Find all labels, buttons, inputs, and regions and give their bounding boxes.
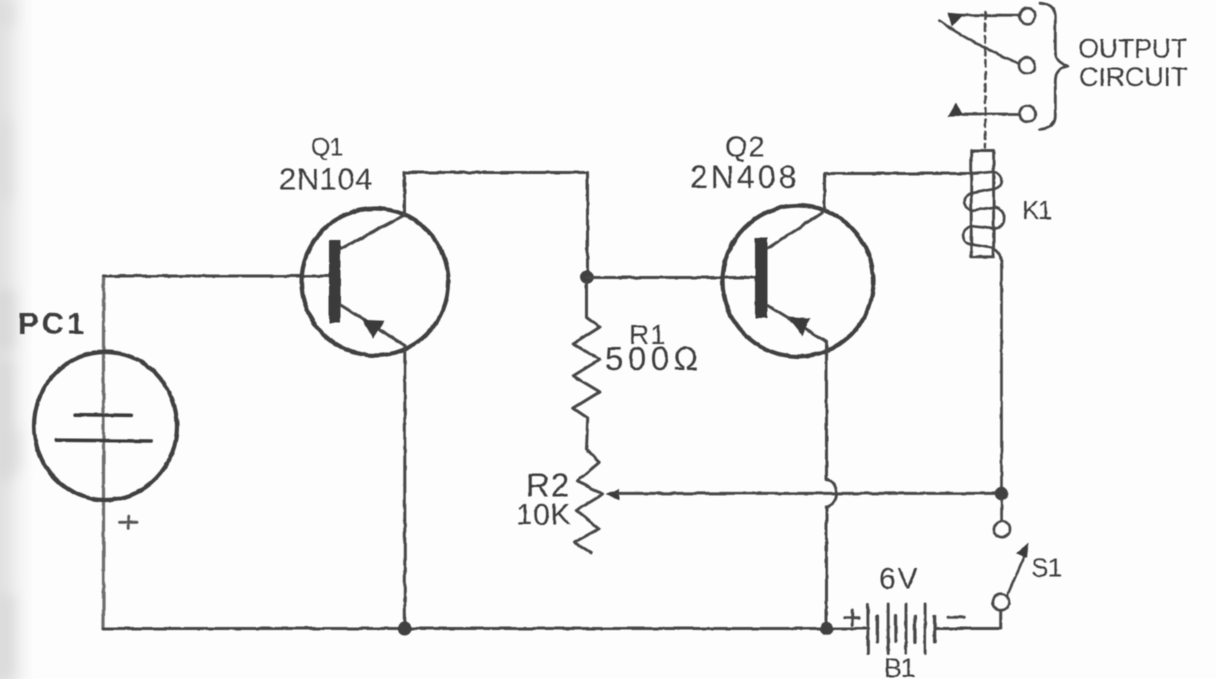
K1 winding [963,172,1004,266]
battery minus sign [948,616,964,619]
svg-text:CIRCUIT: CIRCUIT [1079,62,1187,92]
transistor Q1 circle [302,209,449,356]
junction dot: wiper wire / K1 / S1 [995,487,1009,501]
wire: S1 lower contact to battery minus [937,610,1001,628]
battery plus sign [845,610,860,625]
svg-text:K1: K1 [1022,195,1052,225]
relay contacts: dashed actuator link [984,12,986,148]
S1 blade [1007,556,1024,596]
svg-text:B1: B1 [884,653,915,679]
wire: PC1 to Q1 base [104,275,330,278]
battery B1 plates [866,604,869,654]
svg-text:OUTPUT: OUTPUT [1078,33,1187,63]
relay armature bottom arrow [948,103,964,118]
R2 wiper arrow [606,489,620,500]
wire: bottom rail (PC1 to battery +) [104,627,868,630]
resistor R1 [573,283,600,449]
plus sign PC1 polarity [120,517,138,529]
svg-text:10K: 10K [516,499,571,532]
svg-text:Q1: Q1 [311,134,342,162]
wire: Q2 collector to relay coil K1 [825,172,972,175]
wire: Q2 emitter down with hop over wiper wire [825,342,828,479]
photocell PC1 [34,352,177,500]
junction node dot (Q1 collector / R1 / Q2 base) [580,270,594,284]
Q2 base bar [755,238,768,319]
PC1 bottom plate [56,438,151,442]
relay armature top line [952,14,1020,17]
Q1 collector lead [341,173,405,250]
svg-text:500Ω: 500Ω [605,340,703,377]
potentiometer R2 element [574,449,603,553]
wire: junction to S1 upper contact [1000,500,1003,521]
wire: Q1 collector top run to node [405,173,588,278]
wire: R2 wiper to S1 junction [618,492,1002,495]
Q1 emitter arrow [362,320,384,339]
relay coil K1 frame [971,151,993,257]
junction dot: Q2 emitter / bottom rail [820,622,834,636]
svg-text:6V: 6V [879,563,920,596]
relay armature top arrow [948,13,964,27]
wire: Q1 emitter to bottom rail [403,346,406,629]
output circuit brace [1040,3,1069,129]
switch S1 upper contact [994,521,1010,537]
relay contact terminal bottom [1019,106,1035,122]
S1 blade arrow [1017,543,1029,559]
relay contact terminal top [1020,8,1036,24]
wire: node to Q2 base [587,276,755,279]
Q1 emitter lead [341,305,405,346]
transistor Q2 circle [723,206,874,357]
Q2 emitter arrow [789,317,811,336]
relay armature bottom line [963,113,1019,116]
Q2 collector lead [768,174,825,249]
Q2 emitter lead [768,306,827,343]
PC1 top plate [76,413,132,417]
Q1 base bar [329,240,341,323]
wire: K1 to S1 junction [1000,266,1003,488]
svg-text:S1: S1 [1031,553,1062,583]
relay contact terminal middle [1019,58,1035,74]
switch S1 lower contact [992,594,1009,611]
relay moving blade [939,21,1018,64]
svg-text:2N104: 2N104 [279,162,373,197]
svg-text:2N408: 2N408 [690,159,799,195]
svg-text:PC1: PC1 [18,306,87,341]
wire: PC1 lead through photocell, top junction to bottom rail [102,276,105,629]
junction dot: Q1 emitter / bottom rail [398,622,412,636]
